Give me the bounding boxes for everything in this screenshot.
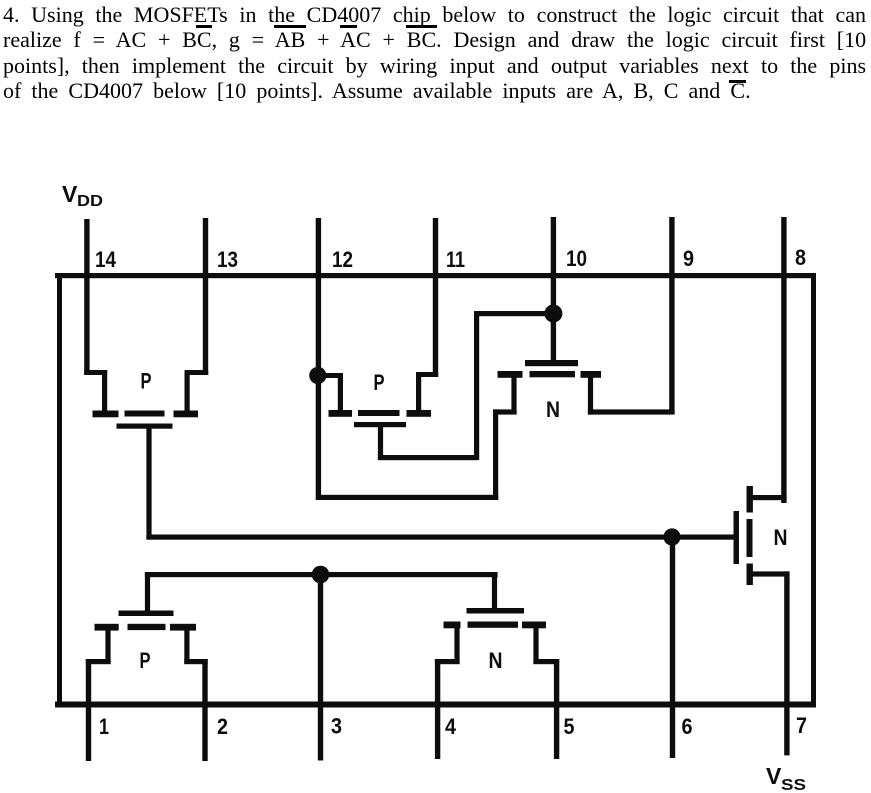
- junction dot on pin 10 line (gate node): [544, 305, 562, 323]
- N1 top contact bar: [747, 486, 753, 513]
- N1 middle channel bar: [747, 519, 753, 557]
- svg-text:9: 9: [683, 246, 694, 271]
- svg-text:P: P: [141, 369, 152, 394]
- P3 left leg down and step out to pin 1: [105, 630, 110, 664]
- pin 10 stub: [551, 217, 556, 366]
- N2 left leg down and step to pin 12 wire: [511, 377, 516, 415]
- transistor P1 (PMOS between pins 14 and 13): [84, 369, 208, 540]
- svg-text:N: N: [489, 648, 503, 673]
- N3 right leg down and step out to pin 5: [533, 628, 538, 664]
- junction dot on bus B at pin 3 line: [312, 566, 330, 584]
- N3 right contact bar: [522, 622, 546, 629]
- N3 left contact bar: [444, 622, 461, 629]
- P3 gate plate: [119, 611, 174, 617]
- outer box right border: [811, 273, 816, 708]
- P1 gate stem: [146, 426, 151, 540]
- svg-text:7: 7: [796, 713, 807, 738]
- pin 12 stub and wire down to corner: [316, 218, 321, 500]
- pin 2 stub: [202, 659, 207, 761]
- svg-text:2: 2: [217, 714, 228, 739]
- P1 middle channel bar: [125, 411, 165, 417]
- P1 left contact bar: [93, 411, 119, 418]
- P2 gate wire to pin 10 node: horizontal, riser, horizontal to dot: [378, 455, 477, 460]
- N3 gate plate: [467, 608, 525, 614]
- pin 6 stub from dot on bus A: [670, 537, 675, 758]
- svg-text:1: 1: [99, 714, 109, 739]
- pin 3 stub from dot on bus B: [318, 575, 323, 761]
- svg-text:V: V: [62, 181, 78, 207]
- N3 middle channel bar: [468, 622, 519, 628]
- pin 4 stub: [435, 659, 440, 759]
- pin 11 stub: [433, 218, 438, 377]
- svg-text:13: 13: [217, 247, 238, 272]
- transistor N3 (NMOS between pins 4 and 5, gate pin 3): [435, 572, 559, 673]
- N1 bottom contact bar: [747, 564, 753, 586]
- P1 gate plate: [117, 424, 173, 429]
- svg-text:4: 4: [445, 714, 457, 739]
- gate bus A (pin 6 net) from P1 gate to N1 gate: [146, 535, 736, 540]
- outer box left border: [57, 273, 62, 708]
- pin 14 stub: [84, 219, 89, 375]
- svg-text:11: 11: [446, 247, 465, 272]
- svg-text:V: V: [766, 763, 782, 789]
- P2 left leg jog: [318, 373, 341, 378]
- N2 right leg down and wire to pin 9: [588, 377, 593, 415]
- N1 bottom wire to pin 7: [750, 571, 790, 576]
- P2 middle channel bar: [358, 410, 400, 416]
- P2 gate stem: [378, 425, 383, 460]
- svg-text:10: 10: [566, 246, 587, 271]
- outer box top rail (VDD rail): [55, 273, 816, 278]
- junction dot on pin 12 line: [309, 367, 326, 384]
- P1 right leg jog: [185, 370, 209, 375]
- svg-text:8: 8: [795, 245, 806, 270]
- N3 gate riser from bus B: [492, 572, 497, 610]
- pin 1 stub: [86, 659, 91, 761]
- P1 right contact bar: [174, 411, 199, 418]
- N1 top wire to pin 8: [750, 495, 787, 500]
- pin 8 stub: [781, 217, 786, 503]
- P3 right leg down and step out to pin 2: [184, 630, 189, 664]
- pin 9 stub: [669, 217, 674, 414]
- transistor N1 (right-side NMOS between pins 8 and 7, gate pin 6): [734, 486, 790, 585]
- svg-text:3: 3: [331, 714, 342, 739]
- N2 right contact bar: [581, 371, 602, 378]
- P1 left leg jog: [84, 370, 107, 375]
- gate bus B (pin 3 net) from P3 gate to N3 gate: [145, 572, 498, 577]
- pin 5 stub: [554, 659, 559, 759]
- svg-text:N: N: [774, 525, 788, 550]
- pin 7 stub from N1 bottom wire: [784, 571, 789, 755]
- N2 middle channel bar: [530, 371, 576, 377]
- N3 left leg down and step out to pin 4: [454, 628, 459, 664]
- P3 right contact bar: [170, 624, 196, 631]
- transistor P3 (PMOS between pins 1 and 2, gate pin 3): [86, 572, 208, 673]
- svg-text:5: 5: [564, 714, 575, 739]
- svg-text:14: 14: [95, 247, 117, 272]
- N2 gate plate: [525, 360, 578, 366]
- P3 middle channel bar: [128, 624, 166, 630]
- svg-text:12: 12: [332, 247, 353, 272]
- svg-text:SS: SS: [781, 777, 806, 793]
- svg-text:DD: DD: [77, 193, 103, 210]
- junction dot on bus A at pin 6 line: [663, 528, 680, 545]
- svg-text:6: 6: [682, 714, 693, 739]
- svg-text:P: P: [374, 370, 385, 395]
- P2 left contact bar: [329, 410, 353, 417]
- N1 gate plate (vertical): [734, 511, 740, 564]
- P2 right contact bar: [407, 410, 432, 417]
- pin 12 horizontal wire to N2 left leg: [318, 495, 498, 500]
- N2 left contact bar: [498, 371, 523, 378]
- pin 13 stub: [203, 218, 208, 375]
- P2 right leg jog: [416, 372, 438, 377]
- transistor P2 (PMOS between pins 12 and 11): [309, 311, 554, 460]
- P2 gate plate: [354, 422, 406, 427]
- svg-text:P: P: [140, 648, 151, 673]
- P3 left contact bar: [95, 624, 119, 631]
- outer box bottom rail (VSS rail): [55, 702, 816, 708]
- transistor N2 (NMOS under pin 10, between pin 12 net and pin 9): [318, 305, 675, 501]
- P3 gate stem: [145, 572, 150, 612]
- svg-text:N: N: [546, 397, 560, 422]
